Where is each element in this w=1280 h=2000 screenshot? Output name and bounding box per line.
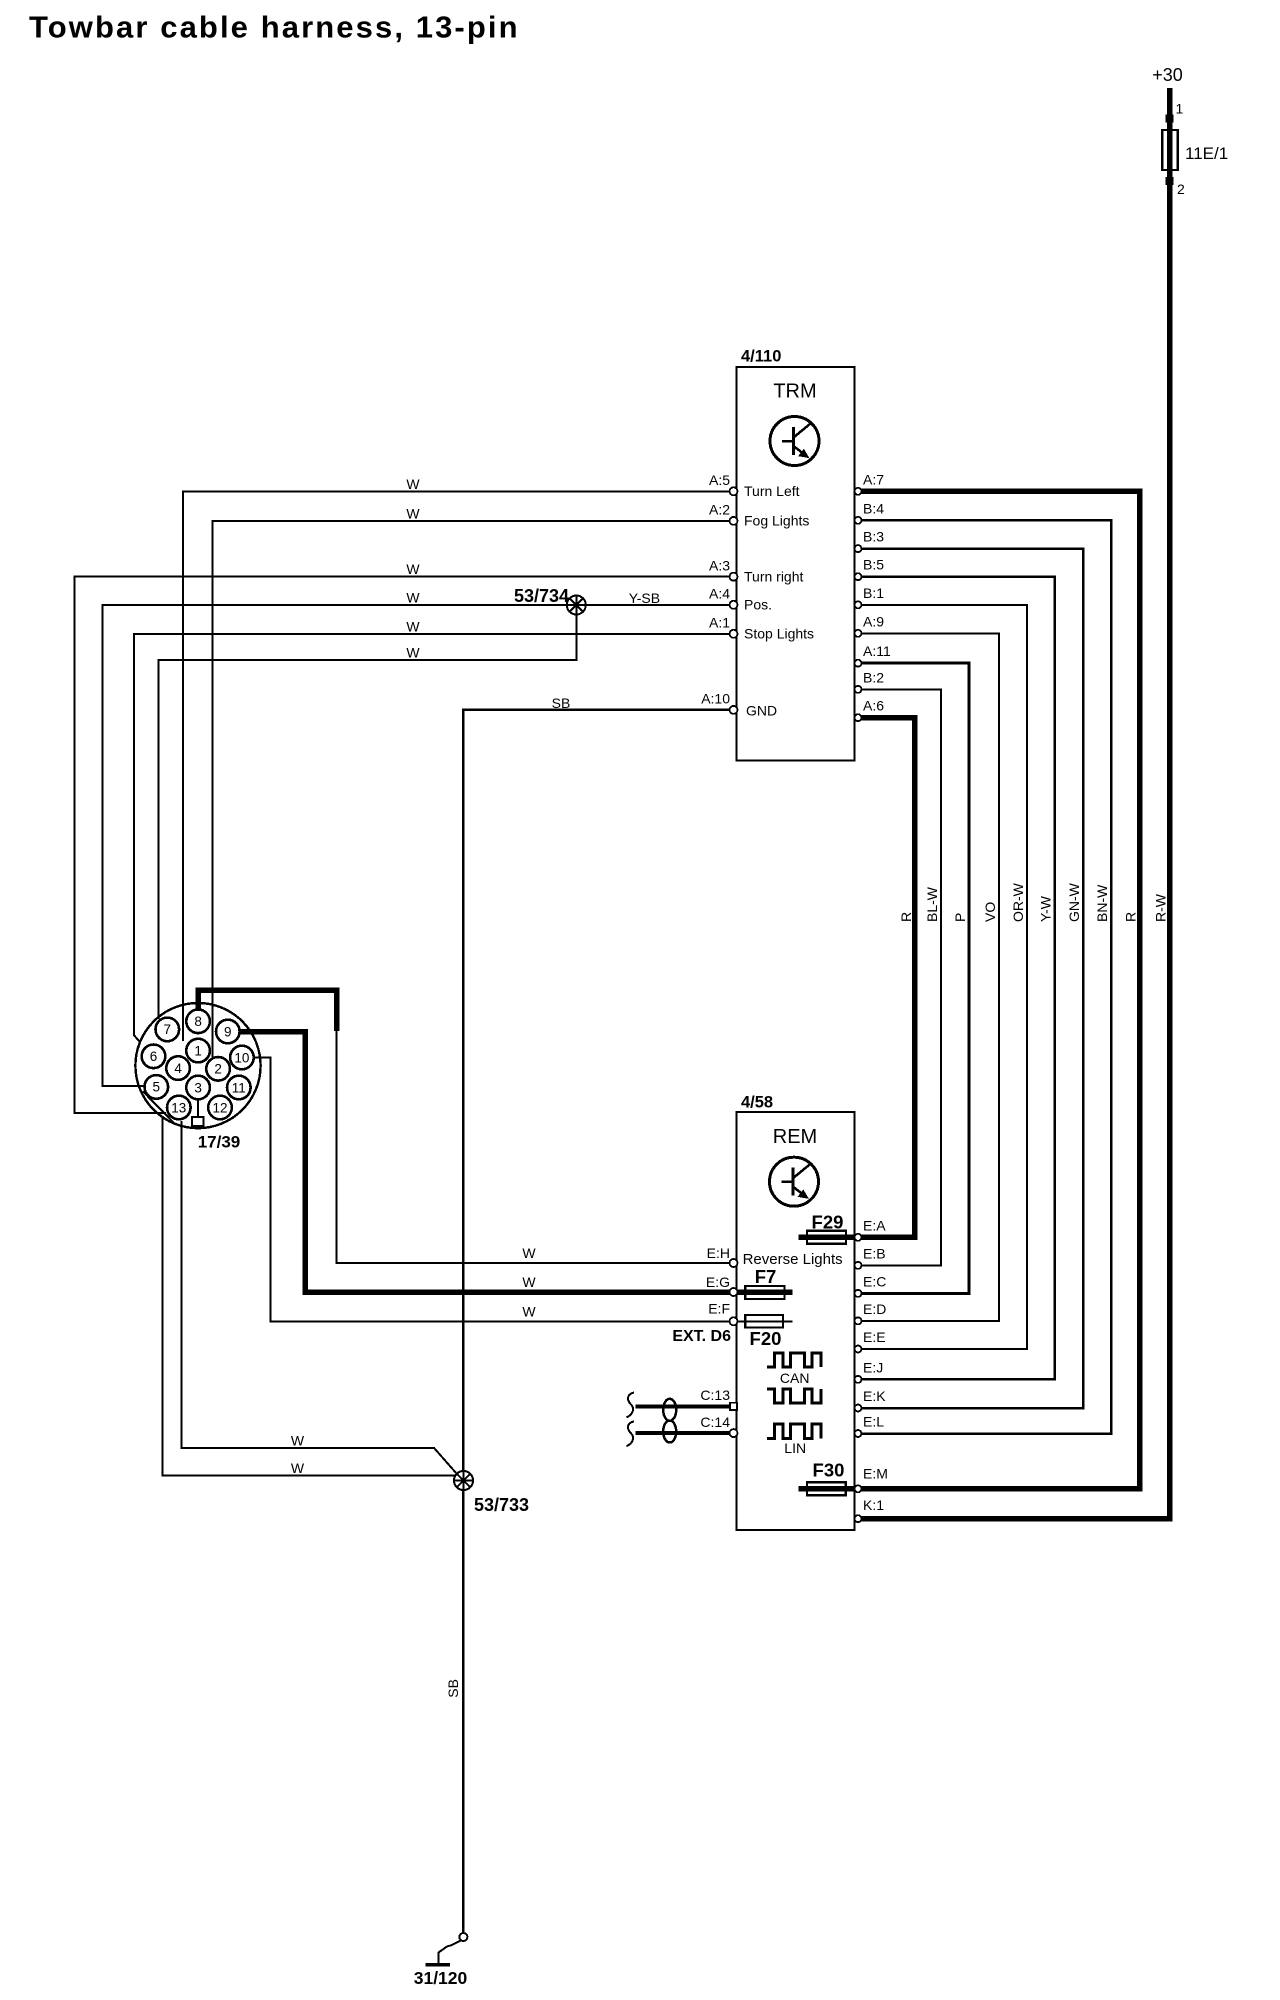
- wire to REM C:14 (twisted pair): [636, 1431, 731, 1435]
- svg-text:B:1: B:1: [863, 585, 884, 601]
- wire W : connector pin 13 down-left to 53/733 (via circle edge): [162, 1120, 455, 1475]
- REM pin E:F: [730, 1317, 738, 1325]
- svg-text:CAN: CAN: [780, 1370, 810, 1386]
- connector pin 4: [166, 1056, 190, 1080]
- wire Y-W : TRM B:5 to REM E:J: [860, 577, 1055, 1380]
- TRM pin B:4: [855, 517, 862, 524]
- svg-text:EXT. D6: EXT. D6: [672, 1328, 731, 1345]
- wire OR-W : TRM B:1 to REM E:E: [860, 605, 1027, 1349]
- svg-text:BN-W: BN-W: [1094, 884, 1110, 922]
- svg-text:8: 8: [194, 1014, 202, 1029]
- TRM pin A:1: [730, 630, 738, 638]
- svg-text:B:2: B:2: [863, 669, 884, 685]
- wire W : splice 53/734 drop down to connector pin 7: [159, 605, 577, 1019]
- svg-text:R-W: R-W: [1153, 893, 1169, 922]
- svg-text:Y-SB: Y-SB: [629, 590, 660, 606]
- svg-text:W: W: [522, 1274, 536, 1290]
- svg-text:K:1: K:1: [863, 1497, 884, 1513]
- svg-text:Y-W: Y-W: [1038, 895, 1054, 922]
- re-draw wires clipped by housing: [183, 1004, 212, 1058]
- wire R : TRM A:6 to REM E:A (thick): [860, 718, 915, 1238]
- connector 17/39 housing circle: [135, 1003, 260, 1128]
- wire W : connector pin 13 area down to 53/733: [181, 1124, 456, 1474]
- REM pin E:D: [855, 1317, 862, 1324]
- svg-text:SB: SB: [445, 1679, 461, 1698]
- REM pin E:H: [730, 1259, 738, 1267]
- TRM pin A:9: [855, 630, 862, 637]
- TRM pin A:4: [730, 601, 738, 609]
- svg-text:C:13: C:13: [700, 1387, 730, 1403]
- svg-text:9: 9: [224, 1024, 232, 1039]
- svg-text:W: W: [406, 645, 420, 661]
- wire SB : TRM A:10 GND down to ground 31/120: [463, 710, 731, 1933]
- fuse F30: [798, 1486, 860, 1492]
- svg-text:W: W: [406, 505, 420, 521]
- TRM pin A:3: [730, 573, 738, 581]
- svg-text:Turn right: Turn right: [744, 568, 804, 584]
- svg-text:Stop Lights: Stop Lights: [744, 626, 814, 642]
- connector pin 8: [186, 1010, 210, 1034]
- wire W : TRM A:2 down to connector pin 2: [212, 521, 731, 1057]
- svg-text:11: 11: [232, 1080, 246, 1095]
- wire VO : TRM A:9 to REM E:D: [860, 633, 999, 1321]
- svg-text:W: W: [406, 561, 420, 577]
- svg-text:E:H: E:H: [707, 1245, 730, 1261]
- svg-text:B:4: B:4: [863, 500, 884, 516]
- svg-text:2: 2: [1177, 181, 1185, 197]
- svg-text:P: P: [952, 913, 968, 922]
- svg-text:OR-W: OR-W: [1010, 882, 1026, 922]
- connector pin 9: [216, 1020, 240, 1044]
- REM pin K:1: [855, 1515, 862, 1522]
- pin 1 of fuse 11E/1: [1166, 115, 1174, 123]
- LIN square wave symbol: [767, 1424, 821, 1439]
- svg-text:13: 13: [171, 1100, 186, 1115]
- connector pin 1: [186, 1039, 210, 1063]
- svg-text:E:D: E:D: [863, 1301, 886, 1317]
- svg-text:A:10: A:10: [701, 691, 730, 707]
- REM pin E:C: [855, 1290, 862, 1297]
- TRM pin B:2: [855, 686, 862, 693]
- TRM pin A:10 GND: [730, 706, 738, 714]
- wire W : TRM A:5 down to connector pin 1: [183, 491, 731, 1041]
- svg-text:F30: F30: [813, 1460, 845, 1481]
- svg-text:E:E: E:E: [863, 1329, 886, 1345]
- svg-text:E:A: E:A: [863, 1217, 886, 1233]
- wire : diagonal into pin 13: [143, 1092, 174, 1124]
- svg-text:W: W: [291, 1460, 305, 1476]
- svg-text:C:14: C:14: [700, 1414, 730, 1430]
- wire GN-W : TRM B:3 to REM E:K: [860, 549, 1083, 1408]
- REM pin E:K: [855, 1405, 862, 1412]
- twisted pair break hook (C:13): [627, 1393, 635, 1418]
- REM pin E:E: [855, 1346, 862, 1353]
- svg-text:Pos.: Pos.: [744, 597, 772, 613]
- svg-text:7: 7: [164, 1022, 172, 1037]
- svg-text:A:6: A:6: [863, 698, 884, 714]
- wire W : connector pin 10 over to REM E:F: [254, 1058, 732, 1322]
- TRM transistor symbol: [770, 417, 819, 466]
- connector pin 6: [142, 1045, 166, 1069]
- REM pin E:B: [855, 1262, 862, 1269]
- svg-text:E:F: E:F: [708, 1300, 730, 1316]
- svg-text:W: W: [406, 618, 420, 634]
- svg-text:Turn Left: Turn Left: [744, 483, 800, 499]
- svg-text:4/58: 4/58: [741, 1094, 773, 1112]
- REM transistor symbol: [770, 1157, 819, 1206]
- svg-text:TRM: TRM: [773, 381, 816, 403]
- svg-text:4: 4: [174, 1061, 182, 1076]
- svg-text:REM: REM: [773, 1126, 817, 1148]
- svg-text:2: 2: [214, 1062, 222, 1077]
- svg-text:E:K: E:K: [863, 1388, 886, 1404]
- svg-text:53/733: 53/733: [474, 1495, 529, 1515]
- connector pin 7: [156, 1018, 180, 1042]
- svg-text:W: W: [406, 589, 420, 605]
- TRM pin A:5: [730, 487, 738, 495]
- fuse F29: [798, 1235, 860, 1241]
- TRM pin B:1: [855, 601, 862, 608]
- wire W : TRM A:3 down then right toward connector pin 13: [75, 577, 732, 1113]
- svg-text:GN-W: GN-W: [1066, 882, 1082, 922]
- TRM pin A:2: [730, 517, 738, 525]
- svg-text:BL-W: BL-W: [924, 886, 940, 922]
- connector pin 13: [167, 1096, 191, 1120]
- svg-text:Fog Lights: Fog Lights: [744, 513, 809, 529]
- wire R-W : +30 feed down to REM K:1: [860, 88, 1170, 1519]
- wire R : TRM A:7 to REM E:M (thick): [860, 491, 1140, 1489]
- svg-text:R: R: [1123, 912, 1139, 922]
- TRM pin A:6: [855, 714, 862, 721]
- svg-text:F29: F29: [812, 1212, 844, 1233]
- pin 2 of fuse 11E/1: [1166, 177, 1174, 185]
- ECU TRM 4/110 box: [737, 367, 855, 761]
- CAN square wave symbol: [767, 1353, 821, 1367]
- twisted pair twist symbol: [663, 1399, 676, 1421]
- connector pin 5: [145, 1075, 169, 1099]
- svg-text:5: 5: [153, 1080, 161, 1095]
- svg-text:E:B: E:B: [863, 1245, 886, 1261]
- fuse F7: [737, 1289, 793, 1295]
- svg-text:11E/1: 11E/1: [1185, 144, 1228, 163]
- wire BN-W : TRM B:4 to REM E:L: [860, 520, 1111, 1433]
- TRM pin B:3: [855, 545, 862, 552]
- svg-text:F7: F7: [755, 1266, 777, 1287]
- svg-text:A:5: A:5: [709, 472, 730, 488]
- svg-text:31/120: 31/120: [414, 1968, 468, 1988]
- wire P : TRM A:11 to REM E:C: [860, 663, 969, 1293]
- svg-text:1: 1: [1176, 101, 1184, 117]
- svg-text:17/39: 17/39: [198, 1133, 241, 1152]
- svg-text:1: 1: [194, 1043, 202, 1058]
- svg-text:A:11: A:11: [863, 643, 891, 659]
- splice 53/734: [567, 596, 586, 615]
- svg-text:A:3: A:3: [709, 557, 730, 573]
- ground strap: [439, 1941, 461, 1964]
- REM pin E:A: [855, 1234, 862, 1241]
- svg-text:A:9: A:9: [863, 613, 884, 629]
- connector notch: [192, 1117, 203, 1126]
- wire W : connector pin 9 over to REM E:G (thick): [240, 1032, 731, 1293]
- svg-text:10: 10: [234, 1050, 249, 1065]
- svg-text:LIN: LIN: [784, 1440, 806, 1456]
- fuse 11E/1: [1162, 130, 1178, 170]
- svg-text:VO: VO: [982, 902, 998, 922]
- svg-text:B:5: B:5: [863, 557, 884, 573]
- wire W : TRM A:1 down to connector pin 6: [134, 634, 731, 1049]
- connector pin 2: [206, 1057, 230, 1081]
- REM pin C:13: [730, 1403, 737, 1410]
- svg-text:3: 3: [194, 1080, 202, 1095]
- connector pin 10: [230, 1046, 254, 1070]
- wire BL-W : TRM B:2 to REM E:B: [860, 689, 941, 1265]
- svg-text:R: R: [898, 912, 914, 922]
- svg-text:E:J: E:J: [863, 1359, 883, 1375]
- wire W : TRM A:4 through splice 53/734 down to connector pin 5: [103, 605, 732, 1086]
- svg-text:6: 6: [150, 1049, 158, 1064]
- svg-text:Reverse Lights: Reverse Lights: [743, 1251, 843, 1268]
- svg-text:53/734: 53/734: [514, 586, 569, 606]
- svg-text:E:G: E:G: [706, 1274, 730, 1290]
- connector pin 3: [186, 1076, 210, 1100]
- ground 31/120: [425, 1963, 450, 1967]
- svg-text:+30: +30: [1152, 65, 1183, 85]
- svg-text:W: W: [291, 1433, 305, 1449]
- splice 53/733: [454, 1471, 473, 1490]
- TRM pin B:5: [855, 573, 862, 580]
- svg-text:12: 12: [212, 1100, 227, 1115]
- svg-text:B:3: B:3: [863, 529, 884, 545]
- wire to REM C:13 (twisted pair): [636, 1404, 731, 1408]
- svg-text:A:4: A:4: [709, 586, 730, 602]
- svg-text:A:7: A:7: [863, 471, 884, 487]
- REM pin E:M: [855, 1485, 862, 1492]
- svg-text:E:L: E:L: [863, 1414, 884, 1430]
- svg-text:E:M: E:M: [863, 1465, 888, 1481]
- svg-text:A:1: A:1: [709, 615, 730, 631]
- svg-text:W: W: [522, 1303, 536, 1319]
- wire W : connector pin 8 up and over to REM E:H (thick at connector): [198, 990, 336, 1031]
- svg-text:Towbar cable harness, 13-pin: Towbar cable harness, 13-pin: [29, 10, 520, 45]
- CAN square wave symbol (low): [767, 1389, 821, 1403]
- twisted pair break hook (C:14): [627, 1421, 635, 1446]
- svg-text:A:2: A:2: [709, 502, 730, 518]
- fuse F20: [737, 1320, 793, 1322]
- TRM pin A:7: [855, 488, 862, 495]
- svg-text:F20: F20: [750, 1328, 782, 1349]
- REM pin E:G: [730, 1288, 738, 1296]
- svg-text:E:C: E:C: [863, 1273, 886, 1289]
- REM pin C:14: [730, 1429, 738, 1437]
- TRM pin A:11: [855, 660, 862, 667]
- ECU REM 4/58 box: [737, 1112, 855, 1530]
- svg-text:GND: GND: [746, 702, 777, 718]
- svg-text:W: W: [406, 476, 420, 492]
- connector pin 12: [208, 1096, 232, 1120]
- svg-text:4/110: 4/110: [741, 348, 781, 366]
- svg-text:SB: SB: [552, 695, 571, 711]
- svg-text:W: W: [522, 1245, 536, 1261]
- ground terminal circle: [459, 1933, 467, 1941]
- REM pin E:J: [855, 1376, 862, 1383]
- connector pin 11: [227, 1076, 251, 1100]
- REM pin E:L: [855, 1430, 862, 1437]
